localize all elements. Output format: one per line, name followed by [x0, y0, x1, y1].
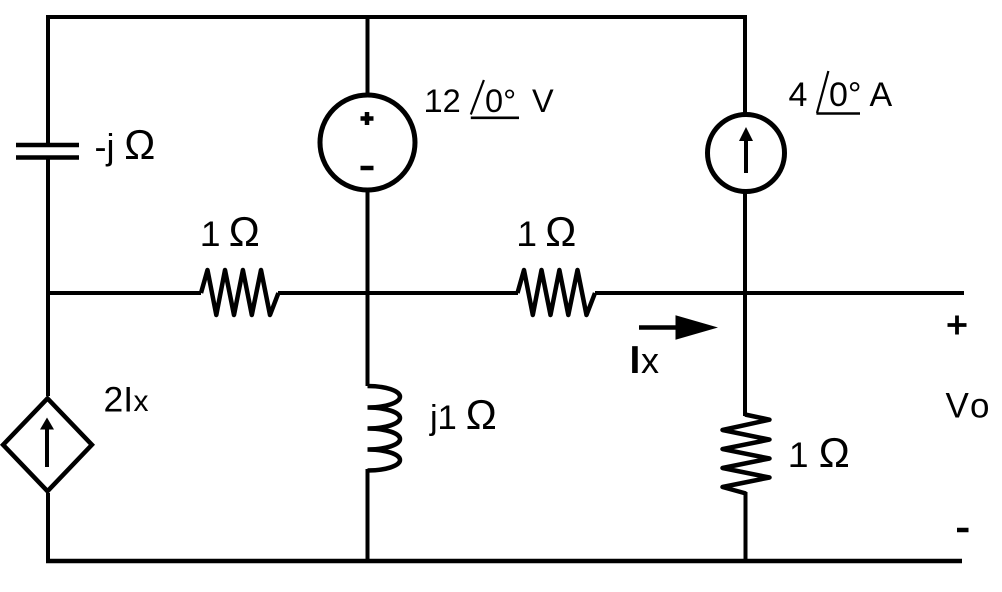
wire right vertical lower: [744, 492, 748, 563]
wire top: [46, 15, 747, 19]
svg-text:1: 1: [789, 436, 808, 475]
Ix arrow shaft: [639, 325, 682, 330]
current source arrow shaft: [744, 140, 748, 173]
wire left middle: [46, 159, 50, 396]
wire bottom: [46, 559, 962, 564]
svg-text:j1: j1: [429, 399, 457, 437]
capacitor -jΩ plate 2: [16, 155, 79, 160]
svg-text:4: 4: [789, 76, 808, 114]
wire middle horizontal center: [278, 291, 518, 295]
wire middle vertical mid: [366, 190, 370, 386]
wire middle horizontal right: [595, 291, 964, 295]
svg-text:Ω: Ω: [466, 391, 497, 438]
dependent source arrow shaft: [45, 428, 49, 467]
angle symbol slash: [471, 80, 484, 115]
angle symbol underline: [471, 117, 519, 120]
wire middle vertical lower: [366, 469, 370, 563]
wire middle vertical upper: [366, 15, 370, 96]
svg-text:Ω: Ω: [229, 208, 260, 255]
svg-text:-j: -j: [95, 126, 115, 167]
inductor j1Ω: [368, 386, 401, 471]
svg-text:V: V: [946, 387, 970, 426]
label - (Vo polarity): [957, 528, 969, 533]
dependent source arrow head: [40, 418, 54, 430]
resistor R1 1Ω left: [201, 270, 278, 315]
resistor R3 1Ω vertical: [723, 415, 770, 494]
svg-text:12: 12: [425, 83, 461, 119]
wire left lower: [46, 493, 50, 563]
angle symbol underline: [816, 112, 860, 115]
svg-text:Ω: Ω: [545, 208, 576, 255]
svg-text:0°: 0°: [829, 76, 862, 114]
svg-text:V: V: [532, 83, 554, 119]
voltage source minus sign: [361, 166, 374, 171]
label + (Vo polarity): [948, 316, 967, 335]
svg-text:2I: 2I: [104, 380, 134, 420]
current source arrow head: [739, 127, 753, 141]
wire middle horizontal left: [46, 291, 201, 295]
svg-text:I: I: [630, 339, 641, 382]
resistor R2 1Ω right: [518, 270, 596, 315]
voltage source U1 circle: [320, 95, 415, 190]
svg-text:o: o: [970, 387, 989, 426]
svg-text:Ω: Ω: [819, 429, 850, 476]
Ix arrow head: [676, 315, 719, 339]
capacitor -jΩ plate 1: [16, 143, 79, 148]
svg-text:0°: 0°: [485, 83, 516, 119]
svg-text:1: 1: [518, 215, 537, 254]
angle symbol slash: [817, 71, 828, 113]
svg-text:1: 1: [201, 215, 220, 254]
svg-text:x: x: [641, 340, 659, 381]
current source I1 circle: [708, 115, 785, 192]
wire left upper: [46, 15, 50, 144]
svg-text:x: x: [134, 385, 149, 418]
svg-text:A: A: [870, 76, 893, 114]
wire right vertical mid: [743, 192, 747, 416]
voltage source plus sign: [361, 112, 374, 125]
dependent current source 2Ix diamond: [3, 398, 92, 491]
svg-text:Ω: Ω: [124, 121, 155, 168]
wire right vertical upper: [743, 15, 747, 114]
